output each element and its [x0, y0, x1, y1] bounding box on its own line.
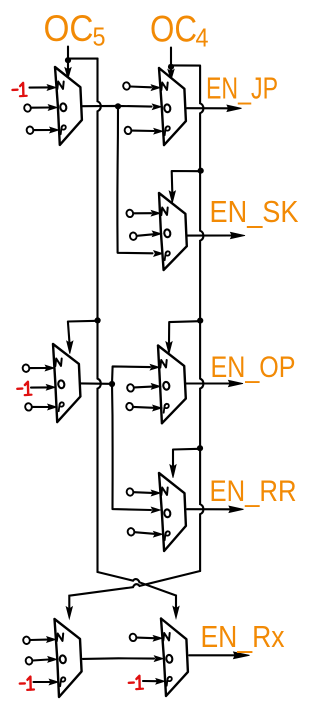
select arrow into mux U5	[166, 342, 172, 354]
wire OC5 to bus	[68, 58, 97, 60]
junction dot OC4 bus to U4 select	[198, 168, 204, 174]
wire OC4 vertical bus	[200, 66, 203, 571]
select arrow into mux U2 (EN_JP right)	[168, 68, 174, 80]
constant 0 circle for U3.N	[22, 364, 30, 373]
select arrow into mux U3	[67, 341, 73, 354]
mux U1	[55, 67, 82, 145]
constant 0 circle for U1.O	[24, 104, 32, 113]
wire U8 output EN_Rx	[189, 654, 234, 656]
wire OC4 stem	[170, 48, 172, 65]
input arrow 0 to U4.O	[137, 231, 161, 237]
svg-text:EN_JP: EN_JP	[206, 72, 278, 106]
constant 0 circle for U6.N	[126, 488, 134, 497]
junction dot U1 output branch	[115, 103, 121, 109]
input arrow -1 to U7.P	[34, 679, 59, 685]
mux U8	[161, 619, 188, 697]
wire U3 output branch up to U5.N input	[112, 364, 159, 384]
svg-text:OC: OC	[150, 7, 197, 49]
constant -1 label for U7 P input	[20, 677, 34, 690]
constant 0 circle for U5.O	[127, 384, 135, 393]
input arrow 0 to U3.N	[30, 365, 55, 371]
input arrow 0 to U3.P	[32, 404, 57, 410]
mux U5	[158, 346, 186, 424]
junction dot OC4 bus to U5 select	[197, 318, 203, 324]
junction dot OC4 bus to U6 select	[197, 445, 203, 451]
input arrow 0 to U4.N	[134, 210, 161, 216]
output label EN_RR	[210, 475, 297, 508]
input arrow -1 to U8.P	[143, 679, 165, 685]
output arrow EN_SK	[231, 232, 246, 238]
wire select of mux U4	[172, 171, 200, 193]
select arrow into mux U4	[169, 191, 175, 203]
net label OC4	[150, 7, 209, 52]
mux U6	[159, 473, 186, 551]
output arrow EN_RR	[229, 506, 244, 512]
input arrow 0 to U1.P	[34, 127, 59, 133]
input arrow 0 to U7.N	[30, 637, 56, 643]
output arrow EN_OP	[229, 380, 244, 386]
constant 0 circle for U5.P	[126, 402, 134, 411]
input arrow 0 to U2.P	[132, 128, 163, 134]
select arrow into mux U8 (bottom right)	[173, 606, 179, 618]
junction dot OC5	[65, 57, 71, 63]
output label EN_JP	[206, 72, 278, 106]
svg-text:EN_SK: EN_SK	[210, 195, 299, 229]
junction dot U3 output branch	[109, 381, 115, 387]
wire select of mux U3	[68, 321, 98, 343]
mux U3	[53, 344, 80, 422]
wire U4 output EN_SK	[187, 234, 231, 236]
mux U2	[159, 68, 186, 145]
constant 0 circle for U1.P	[26, 126, 34, 135]
output arrow EN_JP	[227, 105, 242, 111]
wire OC5 stem	[67, 47, 69, 60]
mux U4	[159, 193, 187, 270]
mux U7	[55, 619, 82, 697]
svg-text:EN_OP: EN_OP	[211, 351, 296, 384]
svg-text:EN_Rx: EN_Rx	[201, 619, 285, 654]
input arrow 0 to U1.O	[31, 105, 57, 111]
constant -1 label for U1 N input	[13, 83, 27, 96]
svg-text:OC: OC	[44, 7, 94, 49]
input arrow 0 to U6.N	[134, 490, 161, 496]
input arrow 0 to U5.P	[133, 405, 162, 411]
wire U6 output EN_RR	[187, 508, 230, 510]
wire U3 output branch down to U6.O input	[112, 384, 160, 513]
output label EN_Rx	[201, 619, 285, 654]
constant 0 circle for U2.P	[124, 126, 132, 135]
svg-text:4: 4	[196, 25, 209, 53]
select arrow into mux U6	[170, 465, 176, 478]
junction dot OC5 bus to U3 select	[95, 317, 101, 323]
wire OC4 to bus	[171, 64, 199, 66]
wire U3 output	[81, 382, 110, 384]
input arrow 0 to U2.N	[130, 85, 160, 91]
input arrow -1 to U3.O	[31, 385, 55, 391]
constant 0 circle for U8.N	[129, 633, 137, 642]
select arrow into mux U1 (EN_JP left)	[65, 61, 71, 79]
constant 0 circle for U6.P	[127, 527, 135, 536]
select arrow into mux U7 (bottom left)	[66, 607, 72, 619]
wire OC4 diagonal to bottom-left mux select	[69, 571, 200, 608]
output label EN_OP	[211, 351, 296, 384]
wire U5 output EN_OP	[186, 382, 229, 384]
constant 0 circle for U7.O	[25, 656, 33, 665]
constant 0 circle for U4.O	[129, 232, 137, 241]
input arrow 0 to U6.P	[135, 531, 163, 537]
svg-text:EN_RR: EN_RR	[210, 475, 297, 508]
output label EN_SK	[210, 195, 299, 229]
wire OC5 vertical bus	[98, 59, 101, 572]
constant -1 label for U3 O input	[17, 382, 31, 395]
junction dot OC4	[168, 64, 174, 70]
constant 0 circle for U4.N	[126, 209, 134, 218]
wire U1 output branch to U4.P input	[117, 106, 162, 256]
input arrow 0 to U8.N	[137, 636, 163, 642]
input arrow 0 to U5.O	[134, 384, 160, 390]
input arrow -1 to U1.N	[30, 85, 57, 91]
svg-text:5: 5	[93, 24, 106, 52]
constant -1 label for U8 P input	[129, 676, 143, 689]
constant 0 circle for U7.N	[23, 636, 31, 645]
wire U7 output to U8.O input	[83, 656, 164, 662]
output arrow EN_Rx	[234, 652, 250, 659]
wire U2 output EN_JP	[187, 107, 228, 109]
constant 0 circle for U3.P	[25, 403, 33, 412]
constant 0 circle for U2.N	[123, 82, 131, 91]
wire U1 output to U2.O input	[83, 104, 162, 110]
net label OC5	[44, 7, 106, 52]
wire OC5 diagonal to bottom-right mux select	[98, 572, 177, 608]
wire select of mux U6	[173, 449, 199, 466]
input arrow 0 to U7.O	[33, 657, 57, 663]
wire select of mux U5	[169, 321, 200, 342]
